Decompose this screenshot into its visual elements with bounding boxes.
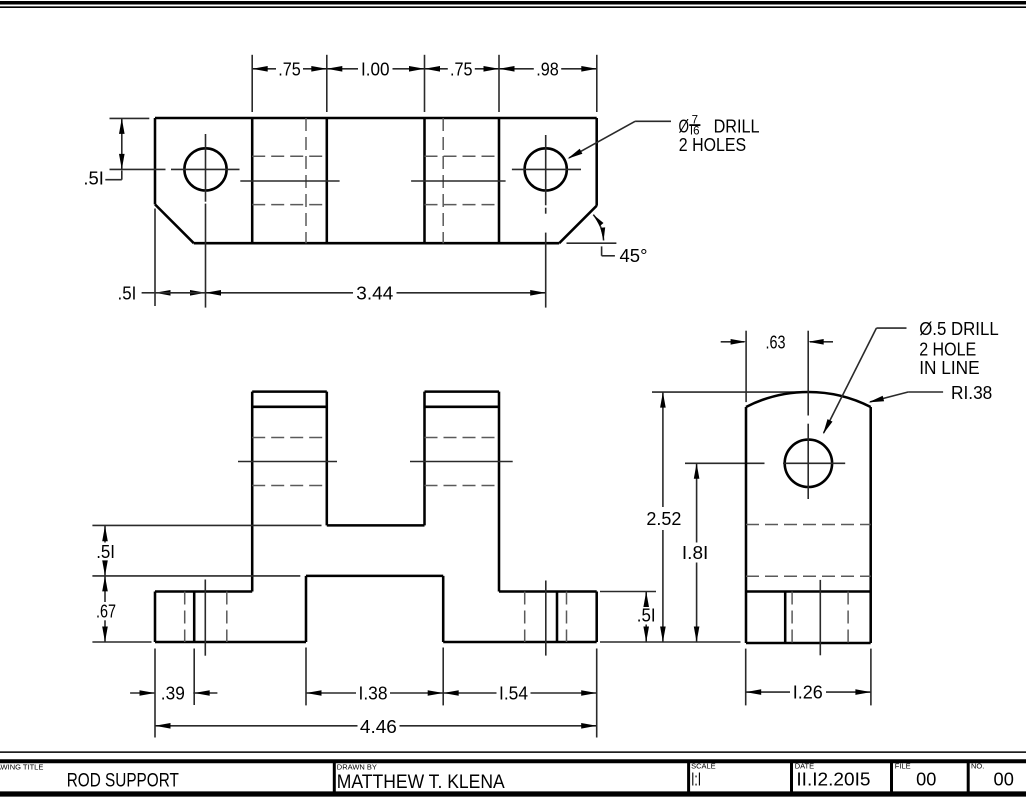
svg-text:.63: .63 (766, 332, 786, 352)
side view: right edge (869, 407, 872, 643)
top view: left edge (154, 118, 157, 204)
side view: rod hole vertical centerline lower (807, 424, 809, 499)
front view: hidden hole edge left foot (left) (184, 592, 186, 643)
top view: left hole centerline extension left (110, 168, 166, 170)
dimension 3.44 line (206, 292, 354, 294)
front view: right foot top edge (499, 590, 597, 593)
dimension 1.81 (696, 463, 698, 542)
svg-text:IN LINE: IN LINE (919, 358, 979, 378)
extension line bottom to the right (600, 641, 741, 643)
leader elbow for 45-deg text (601, 246, 603, 255)
front view: hidden hole edge left foot (right) (226, 592, 228, 643)
extension lines for bottom dimension rows (154, 649, 156, 738)
front view: left riser left edge (251, 392, 254, 592)
top view: right drilled hole 7/16 (525, 148, 567, 190)
top view: top edge (155, 117, 597, 120)
front view: hidden rod hole upper edge, right riser (425, 437, 500, 439)
svg-text:.67: .67 (96, 601, 116, 621)
side view: left edge (745, 407, 748, 643)
leader line for drill note (635, 120, 671, 122)
svg-text:00: 00 (994, 769, 1014, 789)
svg-text:45°: 45° (620, 246, 648, 266)
front view: cutout top edge (306, 575, 443, 578)
svg-text:.98: .98 (536, 59, 559, 79)
top view: right riser right edge (498, 118, 501, 243)
dimension 4.46 (155, 725, 358, 727)
svg-text:RI.38: RI.38 (951, 383, 992, 403)
top view: left riser left edge (251, 118, 254, 243)
top view: left 45-deg chamfer (155, 204, 194, 243)
front view: hidden rod hole lower edge, right riser (425, 485, 500, 487)
svg-text:I.54: I.54 (499, 684, 528, 704)
top view: hidden hole edge upper, right riser (425, 155, 500, 157)
svg-text:.75: .75 (278, 59, 301, 79)
title block: vertical dividers (333, 761, 336, 794)
front view: right riser arc tangent edge (425, 406, 500, 409)
dimension .75 (left) line (252, 68, 276, 70)
side view: rod hole 0.5 drill (785, 440, 832, 487)
dimension .51 horizontal (top view bottom left) (142, 292, 155, 294)
extension line right foot top (600, 591, 656, 593)
front view: left foot hole centerline (204, 580, 206, 656)
sheet border top thick line (0, 1, 1026, 5)
svg-text:2 HOLES: 2 HOLES (679, 135, 746, 155)
svg-text:DRAWN BY: DRAWN BY (337, 763, 377, 772)
extension line web top to left margin (92, 524, 321, 526)
front view: left edge of base (154, 592, 157, 643)
svg-text:I:I: I:I (691, 769, 701, 789)
front view: hidden rod hole lower edge, left riser (252, 485, 327, 487)
svg-text:I.38: I.38 (359, 684, 388, 704)
top view: right riser left edge (423, 118, 426, 243)
svg-text:.5I: .5I (96, 542, 115, 562)
title block: top thick line (0, 759, 1026, 763)
front view: bottom edge left of cutout (155, 641, 306, 644)
front view: left foot top edge (155, 590, 252, 593)
front view: rod hole centerline, left riser (238, 461, 337, 463)
top view: left drilled hole 7/16 (184, 148, 226, 190)
title block: bottom thick line (0, 791, 1026, 796)
svg-text:NO.: NO. (971, 761, 984, 770)
top view: right hole horizontal centerline (512, 168, 581, 170)
svg-text:.5I: .5I (637, 606, 656, 626)
svg-text:DRAWING TITLE: DRAWING TITLE (0, 763, 43, 772)
front view: right riser left edge (423, 392, 426, 526)
extension line cutout top to left margin (92, 575, 300, 577)
svg-text:II.I2.20I5: II.I2.20I5 (796, 769, 870, 789)
extension line 1.26 right (870, 649, 872, 706)
svg-text:DRILL: DRILL (714, 117, 760, 137)
svg-text:I.8I: I.8I (682, 543, 708, 563)
top view: left riser right edge (326, 118, 329, 243)
front view: cutout right edge (442, 576, 445, 642)
svg-text:FILE: FILE (895, 761, 911, 770)
top view: hidden hole edge lower, left riser (252, 204, 327, 206)
dimension .63 (721, 341, 745, 343)
front view: web top edge between risers (327, 524, 425, 527)
top view: right edge (595, 118, 598, 206)
top view: mid centerline right segment (411, 180, 506, 182)
extension line bottom edge to left margin (92, 641, 151, 643)
side view: hidden web top edge (746, 524, 871, 526)
front view: right chamfer edge (556, 592, 559, 643)
extension line 1.26 left (745, 649, 747, 706)
top view: bottom edge (194, 242, 559, 245)
dimension 1.00 line (327, 68, 358, 70)
dimension .51 vertical (top view left) (121, 118, 123, 169)
side view: top arc R1.38 (746, 392, 871, 407)
front view: bottom edge right of cutout (443, 641, 597, 644)
front view: left riser top edge (252, 390, 327, 393)
dimension .98 line (499, 68, 534, 70)
extension line below top view left edge (154, 209, 156, 307)
top view: hidden hole edge upper, left riser (252, 155, 327, 157)
svg-text:.5I: .5I (118, 283, 137, 303)
side view: rod hole vertical centerline upper (807, 331, 809, 416)
front view: hidden hole edge right foot (right) (566, 592, 568, 643)
front view: cutout left edge (305, 576, 308, 642)
top view: hidden edge of bottom cutout (left) (305, 118, 307, 243)
top view: mid centerline left segment (240, 180, 339, 182)
side view: base hole centerline (819, 580, 821, 655)
svg-text:I.00: I.00 (361, 59, 390, 79)
dimension 1.54 (443, 692, 496, 694)
sheet border top thin line (0, 6, 1026, 8)
extension of bottom edge for 45-deg dim (567, 242, 617, 244)
top view: left hole horizontal centerline (171, 168, 240, 170)
extension lines for top dimension row (251, 55, 253, 112)
dimension 1.26 (746, 691, 790, 693)
dimension .51 (front view right) (645, 592, 647, 607)
extension line side view top (652, 391, 806, 393)
svg-text:I.26: I.26 (793, 683, 823, 703)
front view: rod hole centerline, right riser (410, 461, 513, 463)
extension line hole center / side hole centerline (685, 462, 765, 464)
svg-text:ROD SUPPORT: ROD SUPPORT (67, 771, 180, 792)
side view: rod hole horizontal centerline (783, 462, 845, 464)
dimension .39 (130, 692, 154, 694)
top view: right hole vertical centerline (545, 135, 547, 205)
top view: right 45-deg chamfer (559, 206, 597, 244)
45-deg dimension arc (593, 215, 603, 241)
front view: left chamfer edge (193, 592, 196, 643)
top view: hidden edge of bottom cutout (right) (442, 118, 444, 243)
top view: right hole centerline short dash (545, 208, 547, 214)
side view: chamfer edge in base (784, 592, 787, 644)
title block: border bottom thin line (0, 751, 1026, 753)
front view: right riser top edge (425, 390, 500, 393)
front view: right foot hole centerline (545, 581, 547, 656)
side view: bottom edge (746, 642, 871, 645)
front view: right edge of base (595, 592, 598, 643)
extension line side view left edge top (745, 331, 747, 402)
side view: hidden base hole edge (left) (791, 592, 793, 644)
leader for 0.5 drill note (876, 327, 906, 329)
top view: left hole centerline extension down (205, 204, 207, 308)
dimension .67 (front view left) (104, 576, 106, 602)
svg-text:MATTHEW T. KLENA: MATTHEW T. KLENA (337, 772, 505, 793)
svg-text:Ø: Ø (679, 117, 690, 137)
top view: left hole vertical centerline (205, 134, 207, 202)
top view: right hole centerline extension down (545, 233, 547, 308)
svg-text:3.44: 3.44 (356, 283, 393, 303)
dimension 2.52 (662, 392, 664, 507)
dimension 1.38 (306, 692, 356, 694)
side view: base top edge (746, 590, 871, 593)
front view: left riser right edge (326, 392, 329, 526)
side view: hidden base hole edge (right) (847, 592, 849, 644)
leader elbow for .51 text (105, 179, 122, 181)
front view: hidden hole edge right foot (left) (524, 592, 526, 643)
svg-text:.75: .75 (450, 59, 473, 79)
front view: hidden rod hole upper edge, left riser (252, 437, 327, 439)
leader for R1.38 (908, 391, 943, 393)
svg-text:2.52: 2.52 (646, 509, 681, 529)
svg-text:4.46: 4.46 (360, 717, 397, 737)
dimension .51 (front view left) (104, 526, 106, 543)
front view: left riser arc tangent edge (252, 406, 327, 409)
svg-text:.39: .39 (161, 684, 185, 704)
top view: hidden hole edge lower, right riser (425, 204, 500, 206)
side view: hidden cutout top edge (746, 575, 871, 577)
dimension .75 (right) line (425, 68, 448, 70)
svg-text:.5I: .5I (83, 169, 104, 189)
front view: right riser right edge (498, 392, 501, 592)
svg-text:2 HOLE: 2 HOLE (919, 340, 976, 360)
svg-text:Ø.5 DRILL: Ø.5 DRILL (919, 319, 999, 339)
extension line from top-left corner (110, 117, 150, 119)
svg-text:00: 00 (916, 769, 936, 789)
